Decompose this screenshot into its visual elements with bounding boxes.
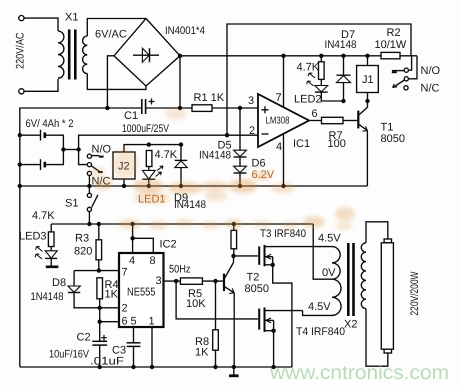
resistor 4.7K (LED3) <box>50 224 52 232</box>
bridge inner diode <box>133 54 159 56</box>
node pin4 rail186 <box>281 184 285 188</box>
LED3 <box>50 247 52 251</box>
lamp top cap <box>384 239 391 243</box>
svg-text:S1: S1 <box>65 198 78 210</box>
battery B2 <box>20 164 40 166</box>
transformer X2 primary coil <box>332 247 341 316</box>
node LED1 bottom on rail <box>147 184 151 188</box>
wire bridge right vertex to +V rail <box>179 56 181 108</box>
svg-text:4.7K: 4.7K <box>155 149 178 161</box>
svg-text:.01uF: .01uF <box>90 356 124 368</box>
node J1/R2 rail <box>365 54 369 58</box>
node D9 top <box>179 142 183 146</box>
resistor R7 <box>322 117 344 123</box>
svg-text:6V/AC: 6V/AC <box>95 29 127 41</box>
wire battery mid to pin2 rail <box>79 135 258 149</box>
wire T2 collector <box>233 256 235 263</box>
wire J1 bottom <box>367 93 369 102</box>
diode D8 <box>73 271 75 286</box>
wire battery mid down to relay common <box>79 150 87 165</box>
wire R2 right to corner <box>400 55 417 57</box>
relay J2 common pole <box>87 163 91 167</box>
svg-text:N/O: N/O <box>421 65 441 77</box>
svg-text:100: 100 <box>328 138 346 150</box>
svg-text:C2: C2 <box>77 332 91 344</box>
node pin6 <box>98 320 102 324</box>
node pin3 junction <box>238 106 242 110</box>
svg-text:D6: D6 <box>252 158 266 170</box>
diode D9 <box>180 145 182 161</box>
wire secondary bottom <box>87 74 107 90</box>
wire J2 bottom <box>123 179 125 186</box>
node 4.7K LED2 rail <box>319 54 323 58</box>
wire T2 emitter to ground <box>233 293 235 367</box>
wire C1 rail left part <box>20 108 142 367</box>
svg-text:8050: 8050 <box>381 133 405 145</box>
relay coil J2 <box>113 152 135 179</box>
svg-text:C1: C1 <box>124 110 138 122</box>
terminal 220V top <box>19 16 24 21</box>
svg-text:IN4148: IN4148 <box>325 39 357 51</box>
svg-text:1000uF/25V: 1000uF/25V <box>122 123 170 135</box>
resistor R5 <box>180 278 202 284</box>
node R3/R4/pin7 <box>97 268 101 272</box>
node pin7 rail <box>281 54 285 58</box>
svg-text:T1: T1 <box>381 122 394 134</box>
svg-text:10K: 10K <box>186 298 206 310</box>
svg-text:X2: X2 <box>344 319 357 331</box>
transistor T2 8050 <box>223 274 225 292</box>
transformer X1 primary coil <box>58 31 64 78</box>
svg-text:D8: D8 <box>52 277 66 289</box>
terminal 220V bottom <box>19 89 24 94</box>
LED1 <box>148 167 150 171</box>
wire T4 source to ground <box>273 331 275 367</box>
resistor R1 <box>192 105 212 112</box>
LED3 arrows <box>35 247 42 260</box>
ground LED3 <box>46 265 59 268</box>
MOSFET T4 <box>258 309 260 330</box>
wire to T3 gate <box>234 255 258 257</box>
svg-text:IC2: IC2 <box>160 239 177 251</box>
wire T3 drain to X2 top tap <box>276 246 333 248</box>
svg-text:R1 1K: R1 1K <box>194 92 225 104</box>
svg-text:N/O: N/O <box>92 144 112 156</box>
transformer X1 core <box>68 30 71 80</box>
node pin4/8 split <box>130 236 134 240</box>
svg-text:4.5V: 4.5V <box>318 233 341 245</box>
relay J2 arm <box>91 166 99 172</box>
wire N/C to rail186 <box>88 176 90 186</box>
svg-text:IN4001*4: IN4001*4 <box>165 25 205 37</box>
svg-text:4.7K: 4.7K <box>32 210 55 222</box>
wire pin4 to rail186 <box>283 134 285 186</box>
relay J1 contact N/O <box>392 70 404 72</box>
relay J1 common <box>404 77 408 81</box>
svg-text:10uF/16V: 10uF/16V <box>49 349 90 361</box>
wire R7 to T1 base <box>343 120 357 122</box>
svg-text:7: 7 <box>122 267 128 279</box>
diode D5 <box>239 108 241 150</box>
wire rail y=186 <box>20 185 368 187</box>
node T2 emitter ground <box>232 365 236 369</box>
svg-text:T2: T2 <box>247 272 260 284</box>
wire T1 emitter <box>366 131 368 186</box>
svg-text:6V/ 4Ah * 2: 6V/ 4Ah * 2 <box>26 118 74 130</box>
node battery mid left <box>61 147 65 151</box>
wire pin2 line <box>100 307 119 309</box>
wire rail to X2 center tap <box>313 224 332 279</box>
svg-text:7: 7 <box>276 92 282 104</box>
node pin2 feedback junction <box>225 133 229 137</box>
wire +V rail y=55.8 <box>180 55 381 57</box>
resistor 4.7K (LED2) <box>320 56 322 62</box>
transformer X2 secondary coil <box>361 243 366 309</box>
relay J1 arm <box>394 80 405 87</box>
capacitor C1 <box>141 99 143 114</box>
wire secondary top to lamp <box>366 222 388 243</box>
wire T4 drain to X2 bottom tap <box>303 311 333 316</box>
wire bridge bottom vertex <box>107 86 146 89</box>
svg-text:2: 2 <box>122 303 128 315</box>
node pullup rail <box>232 222 236 226</box>
transistor T1 8050 <box>357 111 359 129</box>
svg-text:820: 820 <box>74 246 92 258</box>
wire J2 top <box>124 145 181 152</box>
wire R5 to T2 base <box>202 280 223 282</box>
transformer X1 secondary coil <box>83 36 88 74</box>
wire bridge left vertex to C1 rail <box>107 56 114 108</box>
wire pin1 to ground <box>151 327 153 367</box>
IC NE555 box <box>119 253 164 327</box>
svg-text:LED3: LED3 <box>19 231 47 243</box>
transformer X2 core <box>347 243 350 316</box>
svg-text:8: 8 <box>150 255 156 267</box>
svg-text:220V/200W: 220V/200W <box>409 271 421 315</box>
wire top feedback y=24 <box>227 24 411 135</box>
node C2 bottom <box>98 365 102 369</box>
wire mains top <box>24 18 58 31</box>
LED2 <box>320 79 322 85</box>
resistor R2 <box>381 52 400 58</box>
wire pin7 line <box>74 270 119 272</box>
node bridge-left junction <box>105 106 109 110</box>
wire C1 rail right part to op-amp <box>145 107 258 109</box>
node rail to 555 <box>130 222 134 226</box>
svg-text:8050: 8050 <box>245 283 269 295</box>
relay J2 contact N/O <box>87 154 91 158</box>
relay J1 contact N/C <box>404 86 408 90</box>
svg-text:1: 1 <box>149 316 155 328</box>
resistor pull-up (T3 gate) <box>233 224 235 230</box>
wire pin6 line <box>100 308 119 322</box>
svg-text:4.7K: 4.7K <box>297 62 320 74</box>
node battery left top <box>18 133 22 137</box>
svg-text:2: 2 <box>249 125 255 137</box>
svg-text:IN4148: IN4148 <box>199 150 231 162</box>
node R3 top <box>97 222 101 226</box>
node rail186 left <box>18 184 22 188</box>
node D9 bottom on rail <box>179 184 183 188</box>
node battery left bottom <box>18 162 22 166</box>
wire pin6 output <box>309 120 322 122</box>
svg-text:1N4148: 1N4148 <box>31 291 64 303</box>
node +V at x180 on C1 rail <box>178 106 182 110</box>
svg-text:3: 3 <box>248 95 254 107</box>
svg-text:5: 5 <box>131 316 137 328</box>
capacitor C2 <box>99 322 101 341</box>
node T2 collector / T3 gate <box>231 254 235 258</box>
node D7 bottom <box>341 99 345 103</box>
svg-text:T3 IRF840: T3 IRF840 <box>260 228 306 240</box>
wire secondary bottom to lamp <box>366 309 388 367</box>
wire battery midpoint <box>63 149 78 151</box>
node R8 top <box>213 279 217 283</box>
LED1 arrows <box>156 166 164 177</box>
wire secondary top <box>87 19 146 37</box>
MOSFET T3 <box>258 246 260 264</box>
node T3 source <box>271 263 275 267</box>
node J2 bottom on rail <box>122 184 126 188</box>
svg-text:T4 IRF840: T4 IRF840 <box>296 326 345 338</box>
svg-text:4: 4 <box>129 255 135 267</box>
node battery mid right <box>76 147 80 151</box>
LED2 arrows <box>307 73 315 86</box>
svg-text:10/1W: 10/1W <box>375 39 407 51</box>
diode D7 <box>343 56 345 75</box>
relay J2 contact N/C <box>87 171 91 175</box>
svg-text:www.cntronics.com: www.cntronics.com <box>269 362 449 384</box>
switch S1 <box>88 186 90 193</box>
svg-text:4: 4 <box>276 141 282 153</box>
svg-text:6: 6 <box>122 316 128 328</box>
svg-text:NE555: NE555 <box>127 287 156 299</box>
svg-text:X1: X1 <box>65 12 78 24</box>
label minus input <box>262 133 269 135</box>
node rail186 S1 <box>87 184 91 188</box>
node 4.7K top <box>147 142 151 146</box>
wire pin3 out <box>164 280 181 282</box>
battery B1 <box>20 134 40 136</box>
svg-text:1K: 1K <box>195 347 209 359</box>
node S1 bottom <box>87 222 91 226</box>
svg-text:50Hz: 50Hz <box>169 264 191 276</box>
ground symbol <box>233 367 235 375</box>
node C3 bottom <box>131 365 135 369</box>
node T4 source ground <box>271 365 275 369</box>
resistor 4.7K (LED1) <box>146 151 152 167</box>
wire pin7 to +V rail <box>283 56 285 108</box>
svg-text:R2: R2 <box>387 27 401 39</box>
svg-text:220V/AC: 220V/AC <box>15 32 27 69</box>
bridge rectifier IN4001*4 <box>114 19 180 87</box>
svg-text:1K: 1K <box>105 289 119 301</box>
wire ground rail y=367 <box>20 366 293 368</box>
svg-text:LM308: LM308 <box>266 116 290 127</box>
node pin1 bottom <box>150 365 154 369</box>
node R8 bottom <box>213 365 217 369</box>
op-amp U1 LM308 <box>258 94 309 147</box>
svg-text:IN4148: IN4148 <box>174 199 206 211</box>
node pin2/R4/D8 <box>98 306 102 310</box>
node D6 bottom rail186 <box>238 184 242 188</box>
node D7 rail <box>341 54 345 58</box>
svg-text:R3: R3 <box>75 233 89 245</box>
relay coil J1 <box>367 56 369 66</box>
resistor R4 <box>97 278 103 299</box>
svg-text:4.5V: 4.5V <box>308 301 331 313</box>
wire pins 4+8 to rail <box>132 224 134 253</box>
resistor R3 <box>98 224 100 240</box>
wire rail y=224 <box>51 223 313 225</box>
svg-text:6: 6 <box>312 108 318 120</box>
zener D6 <box>239 157 241 166</box>
svg-text:LED2: LED2 <box>294 94 322 106</box>
lamp bottom cap <box>384 349 391 353</box>
node T4 source <box>271 329 275 333</box>
svg-text:3: 3 <box>156 275 162 287</box>
node J1 bottom / T1 collector <box>365 99 369 103</box>
wire pin5 + capacitor C3 <box>133 327 135 343</box>
wire T3 source to ground <box>273 265 292 367</box>
svg-text:IC1: IC1 <box>293 138 310 150</box>
svg-text:0V: 0V <box>322 267 336 279</box>
svg-text:N/C: N/C <box>421 83 440 95</box>
resistor R8 <box>215 281 217 330</box>
label plus input <box>262 106 269 113</box>
wire mains bottom <box>24 79 58 91</box>
svg-text:J1: J1 <box>362 74 374 86</box>
node bridge right vertex <box>178 54 182 58</box>
node pin3 <box>174 279 178 283</box>
wire pin3 to T4 gate <box>176 281 258 319</box>
lamp tube <box>381 243 393 349</box>
